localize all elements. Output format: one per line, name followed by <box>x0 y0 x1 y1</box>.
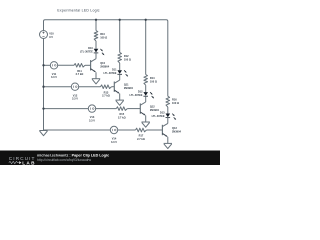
svg-text:R14: R14 <box>150 76 155 80</box>
svg-text:Q13: Q13 <box>172 126 177 130</box>
svg-text:LTL-307EE: LTL-307EE <box>130 93 143 97</box>
svg-text:2.7 kΩ: 2.7 kΩ <box>76 72 84 76</box>
svg-text:100 Ω: 100 Ω <box>124 57 131 61</box>
svg-text:3.3 V: 3.3 V <box>72 97 78 101</box>
svg-text:Q12: Q12 <box>150 105 155 109</box>
svg-text:LAB: LAB <box>22 160 36 165</box>
svg-text:LTL-307EE: LTL-307EE <box>80 50 93 54</box>
svg-text:2N3904: 2N3904 <box>150 108 160 112</box>
svg-text:D12: D12 <box>138 89 143 93</box>
svg-text:Experimental LED Logic: Experimental LED Logic <box>57 9 99 13</box>
svg-text:R10: R10 <box>100 32 105 36</box>
svg-text:2N3904: 2N3904 <box>100 65 110 69</box>
svg-text:michael.schwantz : Paper Clip: michael.schwantz : Paper Clip LED Logic <box>37 153 109 157</box>
svg-text:3.3 V: 3.3 V <box>51 75 57 79</box>
svg-text:D13: D13 <box>160 111 165 115</box>
svg-text:2.7 kΩ: 2.7 kΩ <box>102 94 110 98</box>
svg-text:100 Ω: 100 Ω <box>100 35 107 39</box>
svg-text:V10: V10 <box>49 31 54 35</box>
svg-text:D10: D10 <box>88 46 93 50</box>
svg-text:100 Ω: 100 Ω <box>172 101 179 105</box>
svg-text:http://circuitlab.com/c/bq93/l: http://circuitlab.com/c/bq93/luxaudrw <box>37 158 92 162</box>
svg-text:LTL-307EE: LTL-307EE <box>152 114 165 118</box>
svg-text:2N3904: 2N3904 <box>124 86 134 90</box>
svg-text:Q10: Q10 <box>100 61 105 65</box>
svg-text:3.3 V: 3.3 V <box>89 119 95 123</box>
svg-text:D11: D11 <box>112 67 117 71</box>
svg-text:100 Ω: 100 Ω <box>150 79 157 83</box>
svg-text:2N3904: 2N3904 <box>172 129 182 133</box>
svg-text:3.3 V: 3.3 V <box>111 140 117 144</box>
svg-text:R16: R16 <box>172 98 177 102</box>
svg-text:9 V: 9 V <box>49 35 53 39</box>
svg-text:R12: R12 <box>124 54 129 58</box>
svg-text:LTL-307EE: LTL-307EE <box>104 71 117 75</box>
svg-text:Q11: Q11 <box>124 83 129 87</box>
svg-text:2.7 kΩ: 2.7 kΩ <box>118 116 126 120</box>
svg-text:2.7 kΩ: 2.7 kΩ <box>137 137 145 141</box>
